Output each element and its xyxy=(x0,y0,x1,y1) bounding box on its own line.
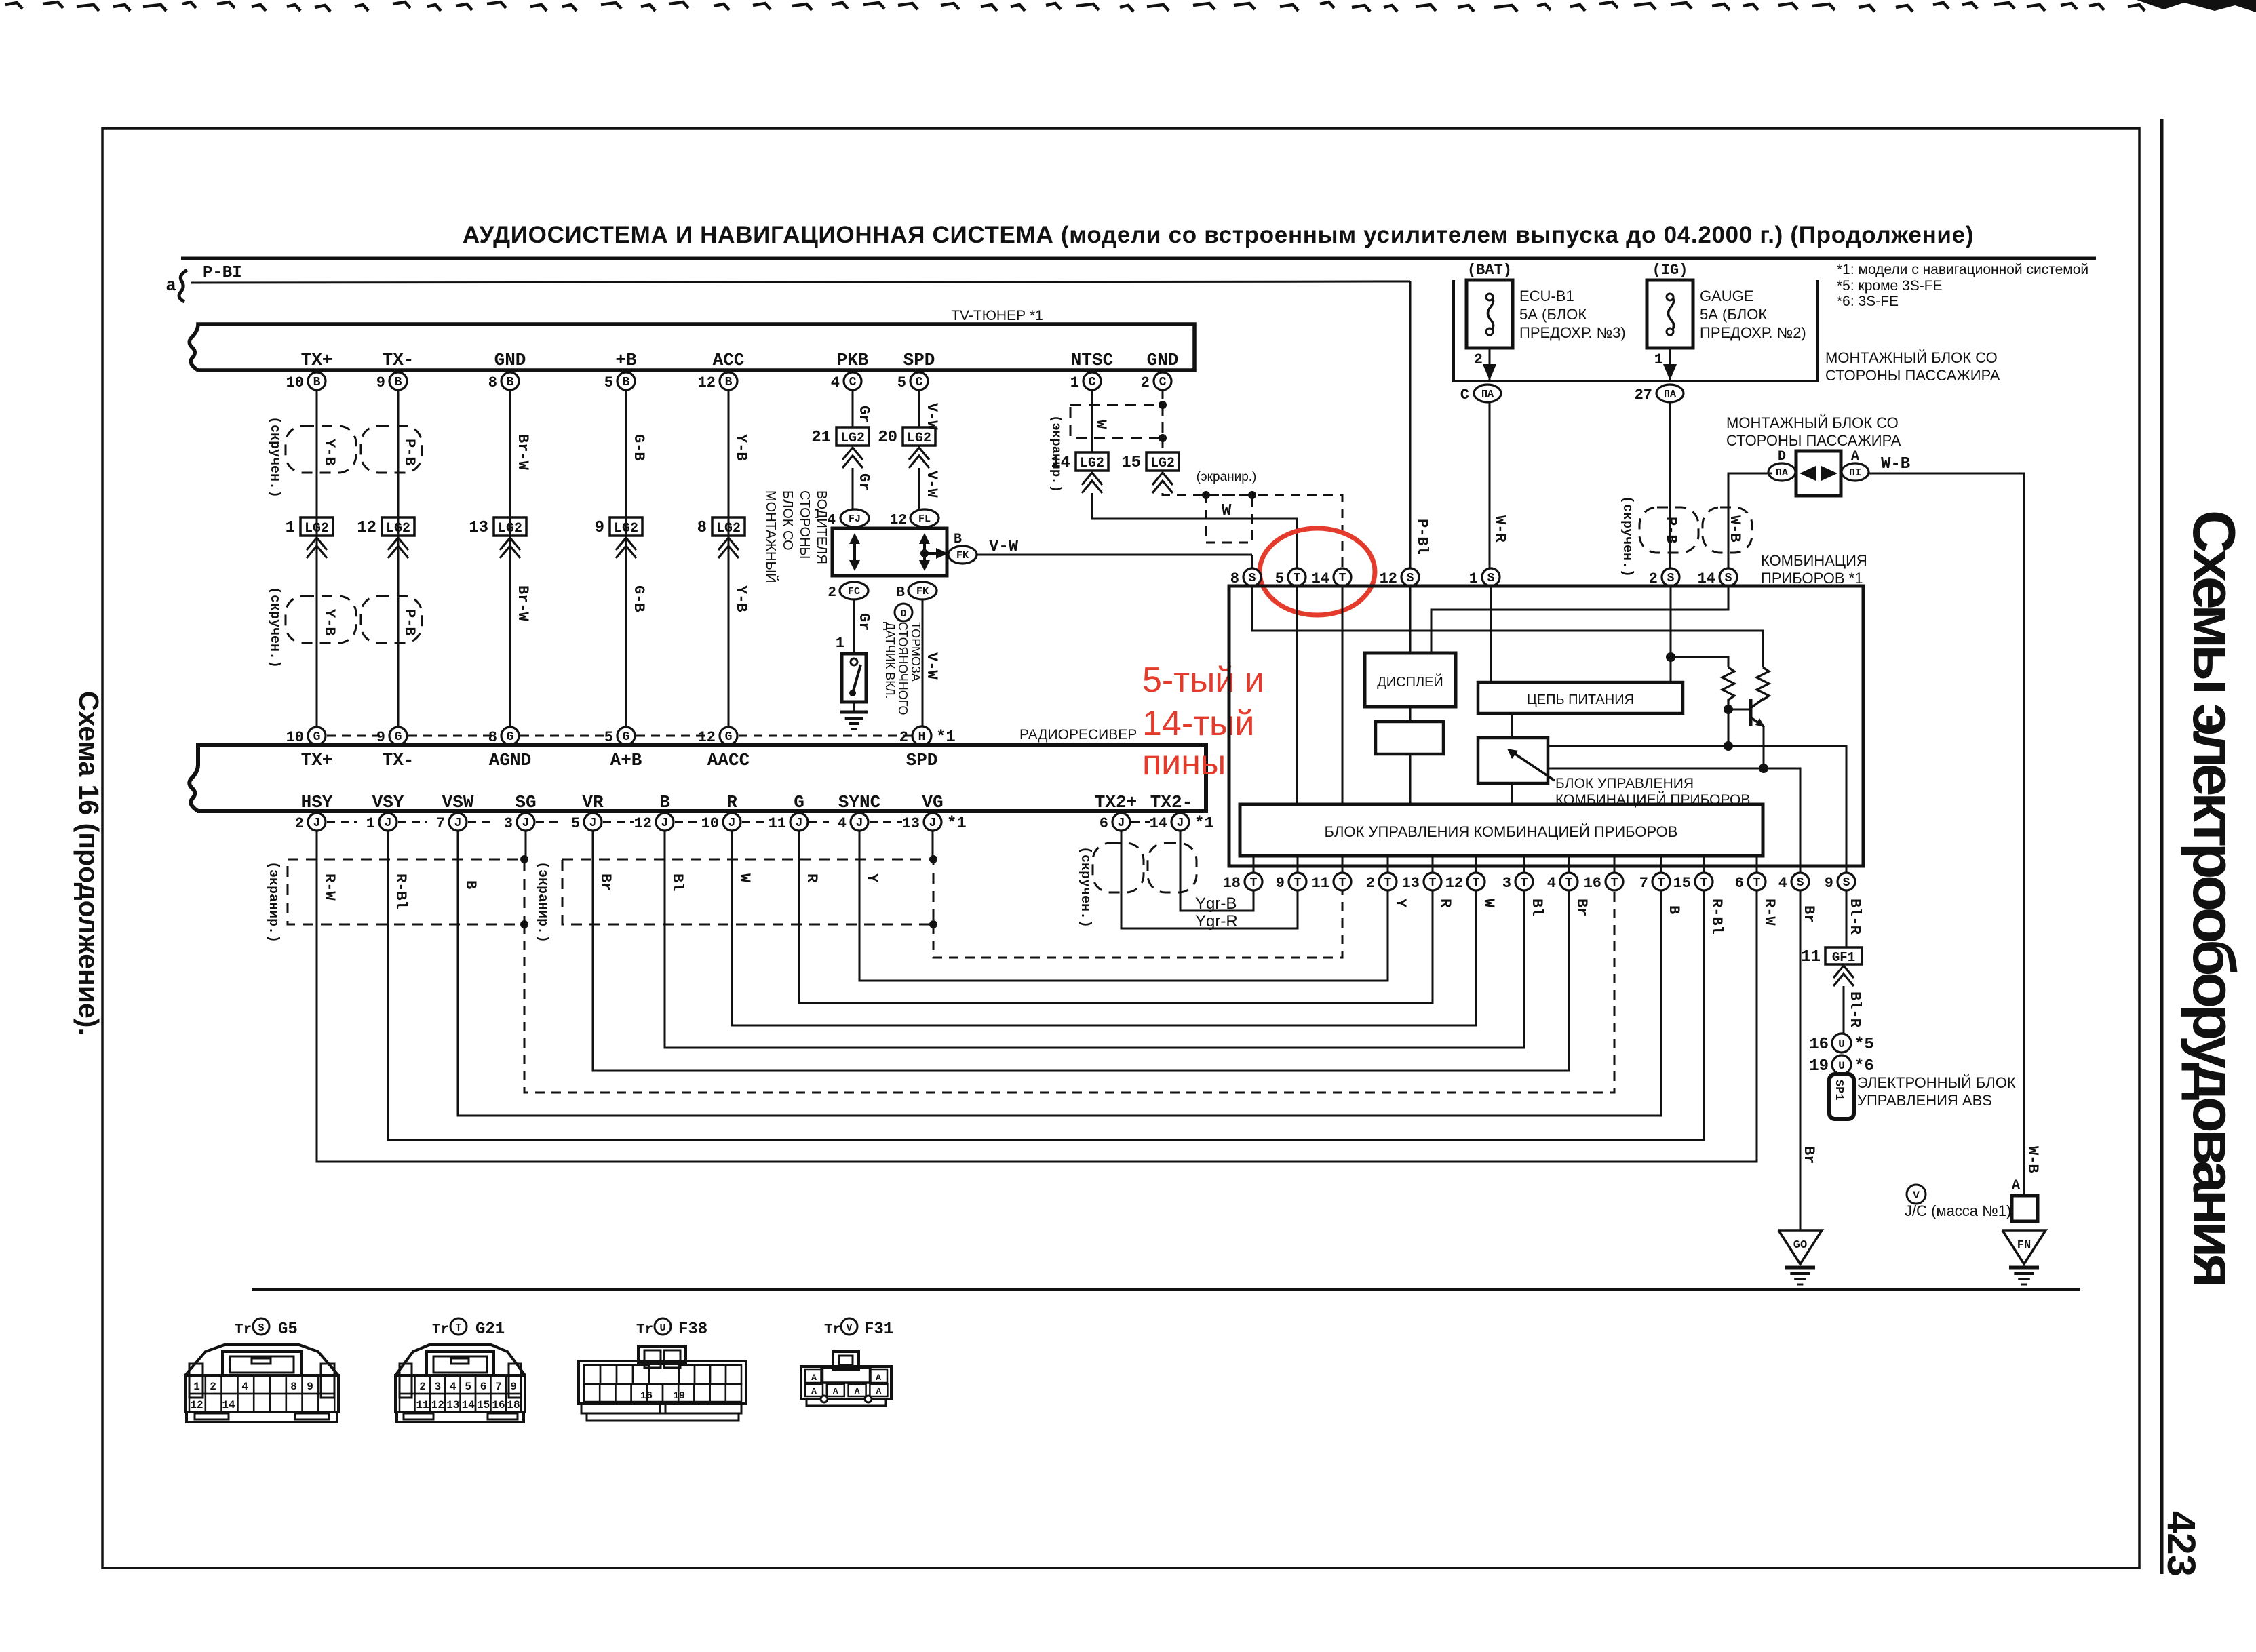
svg-text:V-W: V-W xyxy=(923,652,940,680)
svg-text:SP1: SP1 xyxy=(1832,1080,1845,1101)
junction 8 LG2 xyxy=(712,517,745,536)
svg-text:2: 2 xyxy=(419,1381,426,1393)
radio pin 12(G) xyxy=(720,727,737,745)
page frame border xyxy=(102,128,2139,1568)
svg-text:B: B xyxy=(395,376,402,389)
wire P-BI vertical to pin 12S xyxy=(1409,281,1412,568)
wire GND dashed from tuner xyxy=(1162,390,1164,452)
svg-text:1: 1 xyxy=(1654,351,1663,368)
svg-text:ΠI: ΠI xyxy=(1849,467,1861,479)
left resistor xyxy=(1722,667,1734,709)
svg-text:T: T xyxy=(1753,876,1761,890)
junction 20 LG2 xyxy=(903,427,935,446)
wire Gr to parking brake switch xyxy=(853,600,855,654)
svg-text:VG: VG xyxy=(922,792,943,812)
gauge driver box xyxy=(1478,738,1548,783)
wire driver box to control block xyxy=(1511,783,1513,804)
svg-text:РАДИОРЕСИВЕР: РАДИОРЕСИВЕР xyxy=(1019,727,1137,743)
svg-text:GND: GND xyxy=(494,350,526,370)
svg-text:(скручен.): (скручен.) xyxy=(267,416,282,498)
svg-text:(скручен.): (скручен.) xyxy=(267,587,282,668)
shield dashed from 15 LG2 to pin 14T xyxy=(1163,493,1342,568)
wire P-B from tuner TX- xyxy=(397,390,400,727)
svg-text:СТОРОНЫ ПАССАЖИРА: СТОРОНЫ ПАССАЖИРА xyxy=(1825,367,2000,384)
wire left resistor to lower bus xyxy=(1728,709,1730,746)
svg-text:LG2: LG2 xyxy=(840,431,865,446)
emitter wire down xyxy=(1763,726,1765,768)
svg-text:Y-B: Y-B xyxy=(321,439,338,466)
display box xyxy=(1365,653,1456,707)
wire V-W from tuner SPD xyxy=(918,390,920,427)
svg-text:W: W xyxy=(736,873,753,883)
svg-text:LG2: LG2 xyxy=(386,521,410,536)
radio pin 10(G) xyxy=(308,727,326,745)
svg-text:1: 1 xyxy=(286,519,295,537)
svg-text:Br: Br xyxy=(1573,899,1590,916)
svg-text:LG2: LG2 xyxy=(305,521,329,536)
wire W-R to pin 1S xyxy=(1489,402,1491,568)
cluster pin 11(T) xyxy=(1342,856,1344,873)
svg-text:T: T xyxy=(1521,876,1528,890)
svg-text:NTSC: NTSC xyxy=(1071,350,1113,370)
svg-text:TX-: TX- xyxy=(383,750,414,770)
svg-text:12: 12 xyxy=(357,519,376,537)
svg-text:B: B xyxy=(507,376,514,389)
svg-text:V-W: V-W xyxy=(923,471,940,498)
svg-text:GAUGE: GAUGE xyxy=(1700,288,1753,304)
radio pin 5(G) xyxy=(617,727,635,745)
svg-text:R-Bl: R-Bl xyxy=(1708,899,1725,935)
svg-text:(скручен.): (скручен.) xyxy=(1077,846,1093,928)
cluster pin 9(T) xyxy=(1297,856,1299,873)
wire W R 10J to 12T xyxy=(732,831,1476,1025)
svg-text:P-BI: P-BI xyxy=(203,264,242,282)
wire from 2S down to power circuit xyxy=(1670,586,1672,682)
svg-text:БЛОК СО: БЛОК СО xyxy=(780,490,795,551)
svg-text:F31: F31 xyxy=(864,1320,893,1339)
svg-text:4: 4 xyxy=(1547,875,1556,892)
wire Gr from tuner PKB xyxy=(852,390,854,427)
svg-text:6: 6 xyxy=(1735,875,1744,892)
svg-text:16: 16 xyxy=(1584,875,1601,892)
cluster pin 14(S) xyxy=(1719,568,1737,586)
svg-text:W: W xyxy=(1222,502,1232,520)
svg-text:14: 14 xyxy=(1150,815,1167,832)
red ellipse around pins 5T 14T xyxy=(1260,528,1375,615)
svg-text:T: T xyxy=(1250,876,1258,890)
svg-text:ΠA: ΠA xyxy=(1481,389,1494,400)
svg-text:C: C xyxy=(849,376,857,389)
svg-text:W: W xyxy=(1092,420,1109,429)
svg-text:SPD: SPD xyxy=(903,350,935,370)
svg-text:ПРЕДОХР. №2): ПРЕДОХР. №2) xyxy=(1700,324,1806,341)
radio pin 7(J) xyxy=(449,813,467,831)
wire power to gauge driver box xyxy=(1511,713,1513,738)
svg-text:ПРИБОРОВ *1: ПРИБОРОВ *1 xyxy=(1761,570,1863,587)
svg-text:Br: Br xyxy=(597,873,614,891)
svg-text:4: 4 xyxy=(1778,875,1787,892)
svg-text:1: 1 xyxy=(193,1381,200,1393)
oval connector 27 BA xyxy=(1656,385,1684,402)
gauge driver arrow xyxy=(1511,751,1555,781)
svg-text:T: T xyxy=(1294,876,1302,890)
svg-text:*6: 3S-FE: *6: 3S-FE xyxy=(1837,294,1899,309)
svg-text:VR: VR xyxy=(582,792,604,812)
wire lower bus to pin 9S xyxy=(1548,746,1846,873)
svg-text:R: R xyxy=(1437,899,1454,908)
svg-text:GO: GO xyxy=(1793,1239,1807,1252)
svg-text:LG2: LG2 xyxy=(716,521,741,536)
svg-text:G: G xyxy=(623,730,630,744)
svg-text:G21: G21 xyxy=(475,1320,505,1339)
svg-text:G: G xyxy=(395,730,402,744)
svg-text:A: A xyxy=(855,1386,860,1396)
svg-text:УПРАВЛЕНИЯ ABS: УПРАВЛЕНИЯ ABS xyxy=(1857,1092,1992,1109)
svg-text:HSY: HSY xyxy=(301,792,333,812)
cluster pin 14(T) xyxy=(1334,568,1351,586)
svg-text:J: J xyxy=(796,817,803,830)
svg-text:ТОРМОЗА: ТОРМОЗА xyxy=(909,622,922,682)
svg-text:R-W: R-W xyxy=(1761,899,1778,926)
svg-text:T: T xyxy=(1384,876,1392,890)
sub box under display xyxy=(1376,722,1443,754)
svg-text:15: 15 xyxy=(477,1399,490,1411)
radio pin 13(J) xyxy=(924,813,941,831)
svg-text:5: 5 xyxy=(897,374,906,391)
svg-text:TV-ТЮНЕР *1: TV-ТЮНЕР *1 xyxy=(951,308,1043,323)
wire from 14T down to control block xyxy=(1342,586,1344,804)
wire from 12S down to display xyxy=(1409,586,1412,653)
svg-text:2: 2 xyxy=(210,1381,216,1393)
ground FN xyxy=(2002,1230,2046,1264)
svg-text:A: A xyxy=(2012,1178,2020,1194)
svg-text:B: B xyxy=(725,376,733,389)
svg-text:S: S xyxy=(1725,572,1732,585)
svg-text:11: 11 xyxy=(769,815,786,832)
svg-text:15: 15 xyxy=(1673,875,1691,892)
svg-text:12: 12 xyxy=(431,1399,444,1411)
wire P-B from 27 to pin 2S xyxy=(1669,402,1671,568)
power circuit box xyxy=(1478,682,1683,713)
svg-text:SPD: SPD xyxy=(906,750,938,770)
rule under title xyxy=(181,257,2096,260)
svg-text:18: 18 xyxy=(1223,875,1241,892)
parking brake switch label D circle xyxy=(895,604,912,621)
svg-text:Gr: Gr xyxy=(855,473,872,491)
svg-text:СТОРОНЫ ПАССАЖИРА: СТОРОНЫ ПАССАЖИРА xyxy=(1726,432,1901,449)
cluster pin 7(T) xyxy=(1660,856,1662,873)
shield box around W wire upper xyxy=(1070,405,1163,438)
cluster pin 13(T) xyxy=(1432,856,1434,873)
svg-text:W: W xyxy=(1480,899,1497,908)
svg-text:Br: Br xyxy=(1800,905,1817,923)
svg-text:13: 13 xyxy=(469,519,488,537)
svg-text:S: S xyxy=(258,1322,264,1334)
svg-text:Br-W: Br-W xyxy=(514,434,531,471)
svg-text:R: R xyxy=(803,873,820,883)
cluster pin 3(T) xyxy=(1523,856,1525,873)
wire W-B from D oval to pin 14S xyxy=(1728,473,1772,568)
svg-text:J: J xyxy=(929,817,937,830)
svg-text:LG2: LG2 xyxy=(907,431,931,446)
svg-text:VSW: VSW xyxy=(442,792,474,812)
svg-text:2: 2 xyxy=(1141,374,1150,391)
oval connector 12 FL xyxy=(910,509,939,527)
svg-text:4: 4 xyxy=(831,374,840,391)
radio pin 9(G) xyxy=(389,727,407,745)
cluster pin 18(T) xyxy=(1253,856,1255,873)
svg-text:15: 15 xyxy=(1121,454,1141,472)
svg-text:11: 11 xyxy=(1312,875,1329,892)
svg-text:J: J xyxy=(1118,817,1125,830)
oval connector A BA xyxy=(1842,463,1869,481)
svg-text:5А (БЛОК: 5А (БЛОК xyxy=(1700,306,1767,323)
svg-text:D: D xyxy=(900,608,906,620)
svg-text:4: 4 xyxy=(838,815,847,832)
radio pin 11(J) xyxy=(790,813,808,831)
svg-text:J: J xyxy=(856,817,863,830)
svg-text:J/C (масса №1): J/C (масса №1) xyxy=(1905,1202,2011,1219)
svg-text:2: 2 xyxy=(828,585,836,601)
svg-text:Схемы электрооборудования: Схемы электрооборудования xyxy=(2181,510,2248,1284)
wire R G 11J to 13T xyxy=(799,831,1433,1003)
svg-text:27: 27 xyxy=(1635,387,1652,404)
svg-text:GF1: GF1 xyxy=(1832,950,1855,965)
radio pin 3(J) xyxy=(517,813,534,831)
svg-text:a: a xyxy=(166,275,176,296)
svg-text:P-B: P-B xyxy=(1662,517,1679,544)
svg-text:H: H xyxy=(918,730,926,744)
svg-text:9: 9 xyxy=(595,519,604,537)
wire Br from 4S to GO ground xyxy=(1800,890,1802,1230)
svg-text:C: C xyxy=(916,376,923,389)
radio receiver box xyxy=(189,745,1206,811)
arrow to FK oval xyxy=(920,549,929,557)
wire Y SYNC 4J to 2T xyxy=(859,831,1388,981)
svg-text:11: 11 xyxy=(1801,948,1821,966)
junction 15 LG2 xyxy=(1146,452,1179,471)
radio pin 6(J) xyxy=(1112,813,1130,831)
wire Bl B 12J to 3T xyxy=(665,831,1524,1048)
parking brake switch xyxy=(842,654,866,702)
svg-text:5: 5 xyxy=(571,815,580,832)
svg-text:(экранир.): (экранир.) xyxy=(265,861,281,943)
wire R-Bl VSY 1J to 15T xyxy=(388,831,1704,1140)
wire VG shield 13J to 11T dashed xyxy=(932,831,934,859)
wire from 14S to display xyxy=(1431,586,1728,653)
svg-text:TX+: TX+ xyxy=(301,750,333,770)
ABS unit SP1 xyxy=(1829,1074,1854,1119)
svg-text:AGND: AGND xyxy=(489,750,531,770)
svg-text:SYNC: SYNC xyxy=(838,792,880,812)
svg-text:6: 6 xyxy=(480,1381,487,1393)
svg-text:*5: *5 xyxy=(1854,1036,1874,1054)
svg-text:14: 14 xyxy=(462,1399,475,1411)
junction 9 LG2 xyxy=(610,517,642,536)
svg-text:4: 4 xyxy=(241,1381,248,1393)
cluster pin 8(S) xyxy=(1243,568,1261,586)
svg-text:ДАТЧИК ВКЛ.: ДАТЧИК ВКЛ. xyxy=(883,622,897,699)
svg-text:*5: кроме 3S-FE: *5: кроме 3S-FE xyxy=(1837,278,1943,294)
svg-text:14: 14 xyxy=(1051,454,1070,472)
cluster pin 4(T) xyxy=(1568,856,1570,873)
svg-text:T: T xyxy=(1611,876,1618,890)
svg-text:FJ: FJ xyxy=(849,513,861,525)
svg-text:Tr: Tr xyxy=(824,1322,841,1338)
svg-text:ACC: ACC xyxy=(713,350,745,370)
svg-text:11: 11 xyxy=(416,1399,429,1411)
svg-text:8: 8 xyxy=(697,519,707,537)
svg-text:T: T xyxy=(1700,876,1708,890)
svg-text:9: 9 xyxy=(510,1381,517,1393)
svg-text:(BAT): (BAT) xyxy=(1467,262,1512,279)
svg-text:12: 12 xyxy=(698,374,716,391)
svg-text:Bl-R: Bl-R xyxy=(1846,991,1863,1028)
cluster pin 16(T) xyxy=(1614,856,1616,873)
svg-text:Bl-R: Bl-R xyxy=(1846,899,1863,935)
svg-text:A: A xyxy=(811,1386,817,1396)
wire Bl-R from GF1 to 16U xyxy=(1843,986,1845,1034)
svg-text:21: 21 xyxy=(811,429,831,447)
svg-text:ΠA: ΠA xyxy=(1664,389,1676,400)
svg-text:12: 12 xyxy=(1445,875,1463,892)
svg-text:T: T xyxy=(455,1322,461,1334)
svg-text:7: 7 xyxy=(1639,875,1648,892)
svg-text:G: G xyxy=(313,730,321,744)
svg-text:J: J xyxy=(728,817,736,830)
wire W from LG2 to pin 5T xyxy=(1092,493,1297,568)
cluster pin 1(S) xyxy=(1482,568,1500,586)
svg-text:13: 13 xyxy=(446,1399,459,1411)
passenger junction block bracket xyxy=(1454,280,1817,381)
svg-text:9: 9 xyxy=(376,374,385,391)
svg-text:4: 4 xyxy=(827,513,836,528)
svg-text:Bl: Bl xyxy=(1528,899,1545,916)
svg-text:B: B xyxy=(954,532,962,547)
svg-text:1: 1 xyxy=(366,815,375,832)
driver junction block box xyxy=(832,528,947,576)
svg-text:КОМБИНАЦИЯ: КОМБИНАЦИЯ xyxy=(1761,552,1867,569)
svg-text:СТОРОНЫ: СТОРОНЫ xyxy=(797,490,812,559)
wire W inside cluster from 8S to right resistor xyxy=(1252,586,1763,667)
svg-text:A: A xyxy=(1851,449,1859,465)
svg-text:T: T xyxy=(1473,876,1480,890)
svg-text:T: T xyxy=(1339,876,1346,890)
svg-text:J: J xyxy=(589,817,597,830)
svg-text:F38: F38 xyxy=(678,1320,707,1339)
svg-text:ΠA: ΠA xyxy=(1776,467,1788,479)
junction 12 LG2 xyxy=(382,517,414,536)
wire lower bus to pin 4S xyxy=(1548,768,1800,873)
svg-text:19: 19 xyxy=(673,1390,685,1402)
junction 21 LG2 xyxy=(836,427,869,446)
oval connector B FK right xyxy=(948,546,977,564)
svg-text:A: A xyxy=(833,1386,838,1396)
connector drawing G21 xyxy=(395,1345,525,1375)
oval connector B FK bottom xyxy=(908,582,937,599)
svg-text:LG2: LG2 xyxy=(614,521,638,536)
radio pin 14(J) xyxy=(1171,813,1189,831)
svg-text:TX-: TX- xyxy=(383,350,414,370)
cluster pin 5(T) xyxy=(1288,568,1306,586)
junction 1 LG2 xyxy=(300,517,333,536)
svg-text:СТОЯНОЧНОГО: СТОЯНОЧНОГО xyxy=(896,622,910,715)
svg-text:GND: GND xyxy=(1147,350,1179,370)
svg-text:LG2: LG2 xyxy=(1080,456,1104,471)
wire SG shield 3J to 16T dashed xyxy=(525,831,527,859)
svg-text:B: B xyxy=(1665,905,1682,914)
radio pin 4(J) xyxy=(851,813,868,831)
svg-text:9: 9 xyxy=(307,1381,313,1393)
svg-text:P-B: P-B xyxy=(401,439,418,466)
svg-text:B: B xyxy=(623,376,630,389)
wire Br VR 5J to 4T xyxy=(593,831,1569,1071)
svg-text:TX2+: TX2+ xyxy=(1095,792,1137,812)
svg-text:20: 20 xyxy=(878,429,897,447)
svg-text:T: T xyxy=(1294,572,1301,585)
svg-text:(скручен.): (скручен.) xyxy=(1619,496,1635,577)
svg-text:12: 12 xyxy=(890,513,907,528)
svg-text:V-W: V-W xyxy=(989,538,1019,556)
junction block 2 box xyxy=(1796,451,1841,496)
svg-text:*6: *6 xyxy=(1854,1057,1874,1076)
svg-text:Gr: Gr xyxy=(855,406,872,423)
svg-text:*1: модели с навигационной сис: *1: модели с навигационной системой xyxy=(1837,262,2088,277)
svg-text:Y: Y xyxy=(1392,899,1409,908)
svg-text:G: G xyxy=(794,792,804,812)
svg-text:12: 12 xyxy=(634,815,652,832)
svg-text:БЛОК УПРАВЛЕНИЯ КОМБИНАЦИЕЙ ПР: БЛОК УПРАВЛЕНИЯ КОМБИНАЦИЕЙ ПРИБОРОВ xyxy=(1325,823,1678,840)
radio pin 5(J) xyxy=(584,813,602,831)
svg-text:МОНТАЖНЫЙ БЛОК СО: МОНТАЖНЫЙ БЛОК СО xyxy=(1726,414,1899,431)
svg-text:T: T xyxy=(1339,572,1346,585)
svg-text:AACC: AACC xyxy=(707,750,750,770)
radio pin 2(H) *1 xyxy=(912,726,931,745)
svg-text:9: 9 xyxy=(1276,875,1285,892)
svg-text:Ygr-B: Ygr-B xyxy=(1195,894,1237,913)
junction 11 GF1 xyxy=(1825,947,1862,964)
wire B VSW 7J to 7T xyxy=(458,831,1661,1116)
wire Y-B from tuner TX+ xyxy=(316,390,318,727)
svg-text:8: 8 xyxy=(290,1381,297,1393)
svg-text:G-B: G-B xyxy=(630,434,647,461)
svg-text:J: J xyxy=(454,817,462,830)
svg-text:Y: Y xyxy=(863,873,880,883)
svg-text:S: S xyxy=(1407,572,1414,585)
transistor xyxy=(1724,705,1733,714)
wire Bl-R from 9S to GF1 xyxy=(1846,890,1848,947)
svg-text:D: D xyxy=(1778,449,1786,465)
radio pin 10(J) xyxy=(723,813,741,831)
svg-text:W-B: W-B xyxy=(1881,455,1910,473)
svg-text:T: T xyxy=(1565,876,1573,890)
svg-text:Y-B: Y-B xyxy=(321,609,338,636)
svg-text:S: S xyxy=(1667,572,1675,585)
oval connector 2 FC xyxy=(840,582,868,599)
svg-text:423: 423 xyxy=(2159,1511,2203,1577)
svg-text:2: 2 xyxy=(1366,875,1375,892)
svg-text:Y-B: Y-B xyxy=(733,434,750,461)
svg-text:(экранир.): (экранир.) xyxy=(534,861,550,943)
cluster pin 6(T) xyxy=(1756,856,1758,873)
cluster pin 15(T) xyxy=(1703,856,1705,873)
svg-text:2: 2 xyxy=(295,815,304,832)
svg-text:2: 2 xyxy=(1474,351,1483,368)
svg-text:G: G xyxy=(507,730,514,744)
svg-text:+B: +B xyxy=(615,350,637,370)
torn page edge marks xyxy=(5,2,2145,12)
svg-text:БЛОК УПРАВЛЕНИЯ: БЛОК УПРАВЛЕНИЯ xyxy=(1555,776,1694,791)
